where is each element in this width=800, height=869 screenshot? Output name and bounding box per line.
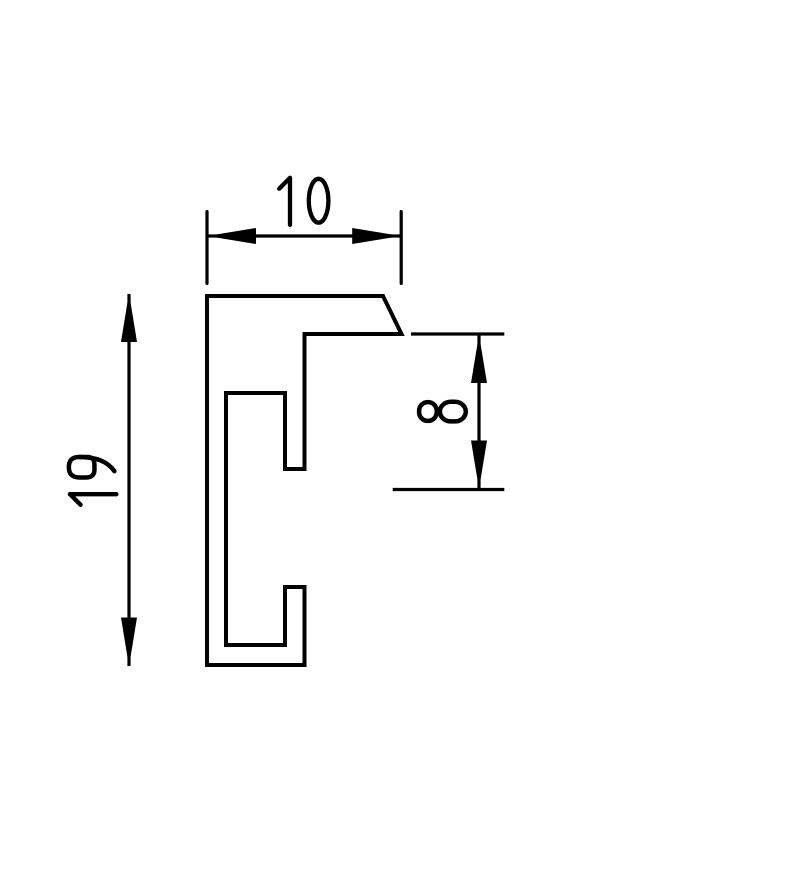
dimension 10: dimension line	[207, 234, 401, 237]
dimension 19: top arrowhead	[121, 293, 137, 342]
dimension 10: left arrowhead	[207, 228, 256, 244]
dimension 10: left extension tick	[205, 212, 208, 284]
dimension 10: digit 1	[279, 178, 290, 225]
dimension 8: top arrowhead	[471, 335, 487, 384]
dimension 10: right extension tick	[400, 212, 403, 284]
dimension 10: digit 0	[309, 179, 329, 223]
dimension 8: bottom arrowhead	[471, 441, 487, 490]
dimension 19: text (rotated) digit 1	[69, 457, 117, 505]
dimension 8: dimension line	[477, 335, 480, 490]
dimension 8: bottom extension line	[393, 488, 505, 491]
profile outline (frame extrusion cross-section)	[207, 296, 402, 665]
dimension 19: bottom arrowhead	[121, 618, 137, 667]
dimension 19: text (rotated) digit 9	[69, 457, 115, 478]
dimension 8: text (rotated) digit 8	[419, 402, 466, 422]
dimension 8: top extension line	[411, 332, 504, 335]
dimension 19: dimension line	[127, 294, 130, 666]
dimension 10: right arrowhead	[352, 228, 401, 244]
